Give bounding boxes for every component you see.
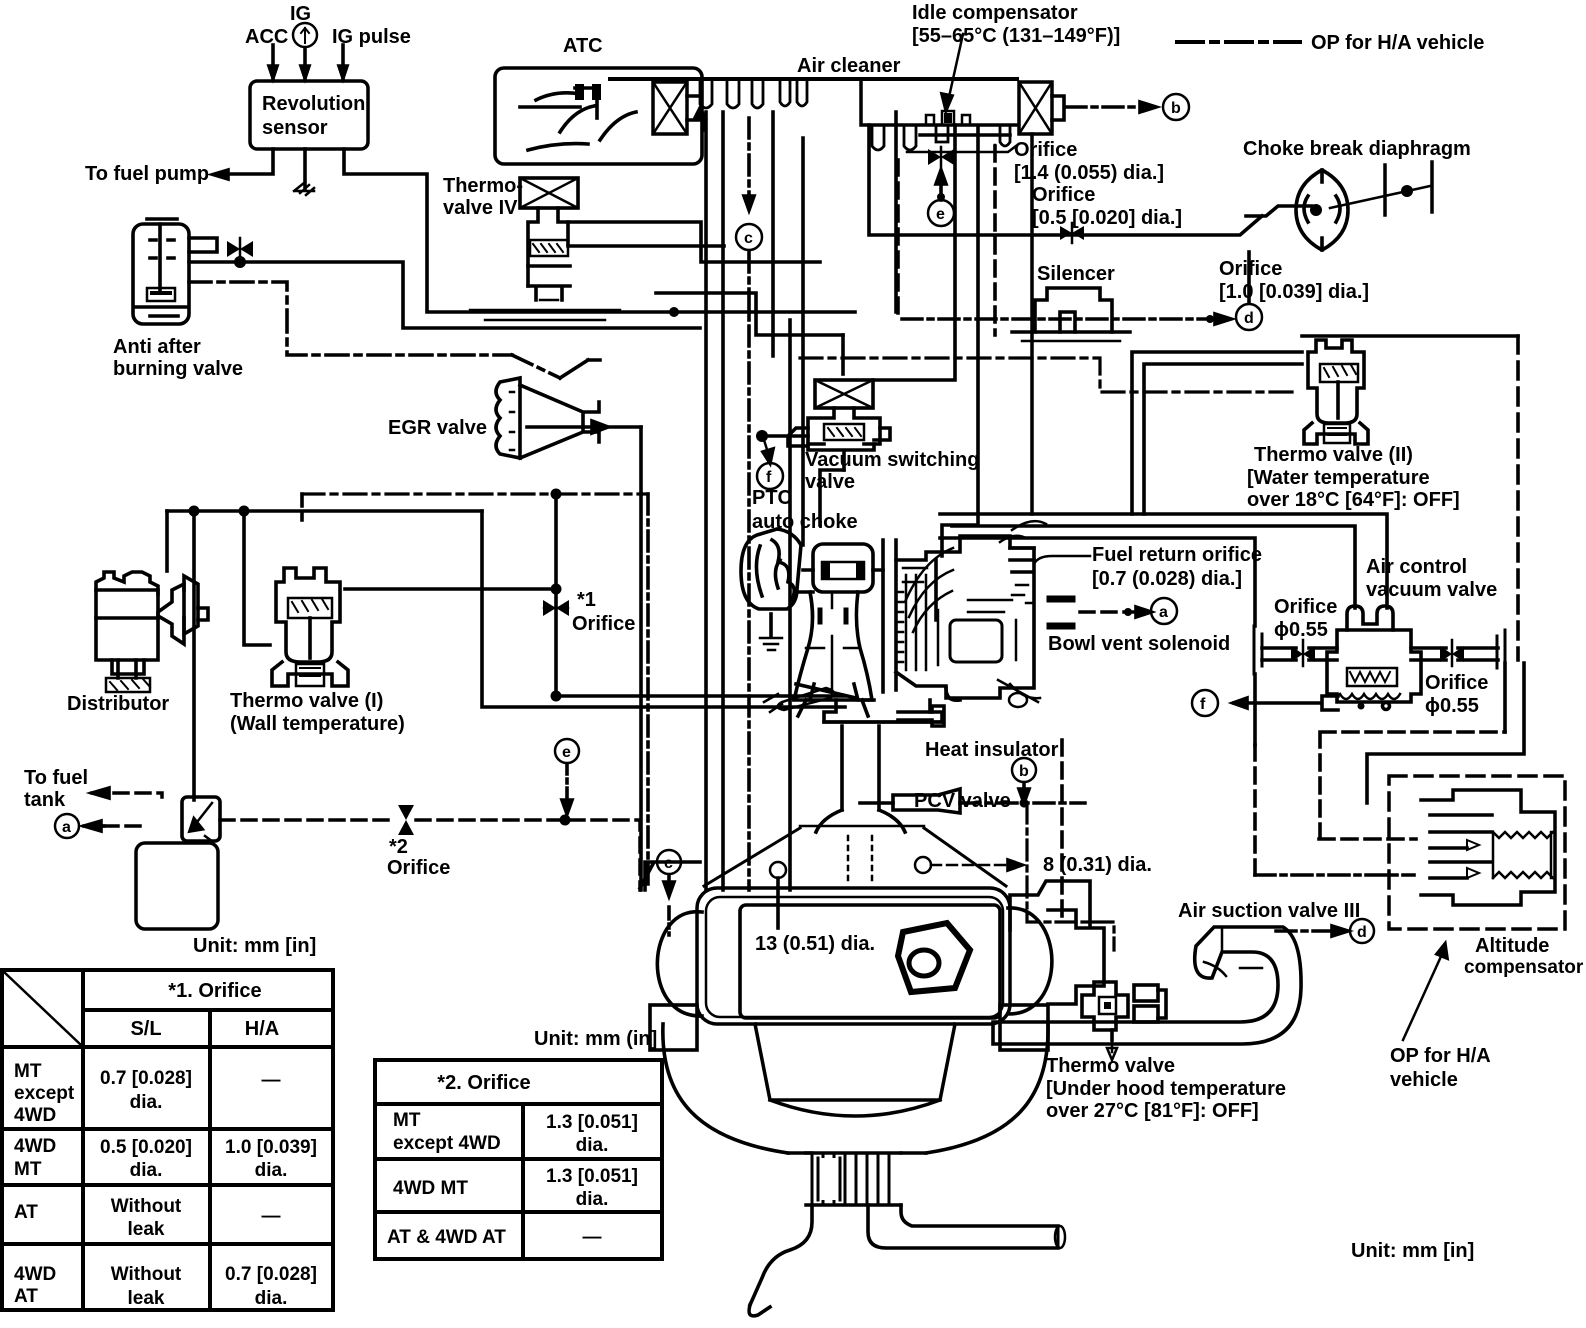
bundle vertical wire x723 bbox=[721, 112, 725, 890]
node a (bottom left) with arrow bbox=[55, 814, 148, 838]
wire x955 down to switching valve bbox=[873, 125, 955, 380]
svg-text:Thermo valve: Thermo valve bbox=[1046, 1055, 1175, 1077]
engine lower block bbox=[663, 1024, 1048, 1153]
table 2 orifice bbox=[375, 1060, 662, 1259]
wire solid mid-left bus y511 bbox=[167, 506, 482, 517]
svg-text:Orifice: Orifice bbox=[1014, 139, 1077, 161]
svg-text:d: d bbox=[1244, 310, 1254, 327]
node e (bottom) with arrow down bbox=[555, 739, 579, 814]
svg-text:compensator: compensator bbox=[1464, 957, 1584, 978]
valve orifice 0.55 right (bowtie) bbox=[1411, 630, 1505, 674]
carburetor venturi body bbox=[794, 540, 896, 716]
svg-text:Orifice: Orifice bbox=[572, 613, 635, 635]
wire vertical x843 from mid bus bbox=[841, 335, 845, 374]
svg-text:[0.5 [0.020] dia.]: [0.5 [0.020] dia.] bbox=[1032, 207, 1182, 229]
wire long horizontal to air control valve left port bbox=[952, 526, 1355, 608]
svg-text:(Wall temperature): (Wall temperature) bbox=[230, 713, 405, 735]
svg-text:leak: leak bbox=[128, 1219, 165, 1240]
wire dash-dot mid-left bus bbox=[302, 489, 648, 521]
svg-text:f: f bbox=[766, 469, 772, 486]
orifice 0.5 line with valve bbox=[869, 125, 1262, 243]
svg-text:d: d bbox=[1357, 924, 1367, 941]
svg-text:Heat insulator: Heat insulator bbox=[925, 739, 1059, 761]
svg-text:*2. Orifice: *2. Orifice bbox=[437, 1072, 530, 1094]
svg-text:[Under hood temperature: [Under hood temperature bbox=[1046, 1078, 1286, 1100]
node b (engine) with arrow bbox=[1012, 758, 1036, 808]
node f (mid) with arrow down bbox=[756, 430, 808, 489]
wire thermo valve IV upper port to bus bbox=[568, 222, 820, 262]
wire dashed to node a (bowl vent) bbox=[1050, 599, 1151, 626]
wire dash-dot to node d (silencer line) bbox=[902, 314, 1231, 324]
svg-text:4WD: 4WD bbox=[14, 1264, 56, 1285]
wire dash-dot from anti-after-burn lower port bbox=[189, 282, 560, 378]
valve *2 orifice bbox=[398, 805, 414, 835]
svg-text:Unit: mm (in]: Unit: mm (in] bbox=[534, 1028, 657, 1050]
svg-text:IG: IG bbox=[290, 3, 311, 25]
wire right corner solids bbox=[1367, 663, 1524, 803]
wire x1026 heavy vertical bbox=[1030, 134, 1034, 514]
svg-text:dia.: dia. bbox=[576, 1135, 609, 1156]
wire thermo valve II left port to junction bbox=[1132, 352, 1302, 514]
svg-text:EGR valve: EGR valve bbox=[388, 417, 487, 439]
svg-text:c: c bbox=[744, 230, 753, 247]
svg-text:f: f bbox=[1200, 696, 1206, 713]
table 1 orifice bbox=[2, 970, 333, 1310]
svg-text:dia.: dia. bbox=[576, 1189, 609, 1210]
wire anti-after-burn valve to right bus bbox=[189, 262, 700, 328]
bundle vertical wire x790 bbox=[788, 320, 792, 890]
svg-text:Anti after: Anti after bbox=[113, 336, 201, 358]
throttle shaft detail bbox=[764, 688, 834, 712]
orifice 1.4 line with valve bbox=[928, 147, 954, 167]
svg-text:Thermo-: Thermo- bbox=[443, 175, 523, 197]
svg-text:e: e bbox=[562, 744, 571, 761]
wire long horizontal to air control valve right port bbox=[940, 514, 1387, 608]
wire solenoid enclosure to air control valve bbox=[940, 538, 1255, 745]
check valve to fuel tank bbox=[182, 797, 220, 842]
wire EGR outlet down the bundle bbox=[639, 427, 643, 890]
svg-text:To fuel pump: To fuel pump bbox=[85, 163, 209, 185]
revolution sensor U1 bbox=[250, 81, 368, 149]
svg-text:Vacuum switching: Vacuum switching bbox=[805, 449, 979, 471]
svg-text:AT & 4WD AT: AT & 4WD AT bbox=[387, 1227, 506, 1248]
air control vacuum valve bbox=[1327, 606, 1421, 710]
node e (top) with arrow up bbox=[928, 170, 954, 226]
wire distributor drop bbox=[165, 511, 169, 571]
svg-text:[1.4 (0.055) dia.]: [1.4 (0.055) dia.] bbox=[1014, 162, 1164, 184]
bundle vertical wire x773 bbox=[771, 112, 775, 356]
svg-text:ATC: ATC bbox=[563, 35, 603, 57]
svg-text:dia.: dia. bbox=[255, 1160, 288, 1181]
node c (top) bbox=[736, 224, 762, 250]
valve (bowtie) on anti-after-burn line bbox=[227, 238, 253, 268]
valve orifice 0.55 left (bowtie) bbox=[1254, 626, 1337, 674]
heat stove crossed box (ATC right) bbox=[653, 82, 705, 134]
wire idle compensator body bbox=[926, 111, 970, 125]
svg-text:valve: valve bbox=[805, 471, 855, 493]
svg-text:4WD: 4WD bbox=[14, 1136, 56, 1157]
svg-text:sensor: sensor bbox=[262, 117, 328, 139]
PCV valve body bbox=[860, 789, 960, 813]
engine rocker cover bbox=[640, 862, 1104, 1050]
choke break diaphragm bbox=[1246, 162, 1432, 250]
altitude compensator dashed box bbox=[1389, 776, 1565, 929]
legend dash-dot sample bbox=[1177, 40, 1300, 44]
altitude compensator body bbox=[1421, 790, 1555, 905]
ground below revolution sensor bbox=[294, 149, 314, 195]
svg-text:Orifice: Orifice bbox=[1032, 184, 1095, 206]
node c (engine) with arrow bbox=[657, 850, 681, 935]
wire IG pulse lead bbox=[339, 45, 347, 78]
svg-text:*2: *2 bbox=[389, 836, 408, 858]
svg-text:b: b bbox=[1171, 100, 1181, 117]
svg-text:1.3 [0.051]: 1.3 [0.051] bbox=[546, 1112, 638, 1133]
ATC housing bbox=[495, 68, 702, 164]
svg-text:Revolution: Revolution bbox=[262, 93, 365, 115]
node IG terminal bbox=[293, 23, 317, 47]
svg-text:Air cleaner: Air cleaner bbox=[797, 55, 901, 77]
svg-text:0.7 [0.028]: 0.7 [0.028] bbox=[100, 1068, 192, 1089]
wire right drop to lower bus bbox=[482, 511, 845, 707]
svg-text:[Water temperature: [Water temperature bbox=[1247, 467, 1430, 489]
svg-text:Orifice: Orifice bbox=[1425, 672, 1488, 694]
svg-text:—: — bbox=[583, 1227, 602, 1248]
wire to fuel pump bbox=[213, 149, 273, 179]
svg-text:1.0 [0.039]: 1.0 [0.039] bbox=[225, 1137, 317, 1158]
fuel return orifice pointer bbox=[1034, 556, 1090, 564]
svg-text:OP for H/A: OP for H/A bbox=[1390, 1045, 1491, 1067]
heat stove crossed box (air cleaner right) bbox=[1019, 82, 1064, 134]
svg-text:tank: tank bbox=[24, 789, 66, 811]
wire dashed main bottom bus bbox=[220, 815, 640, 891]
wire pcv dash-dot to 8dia bus bbox=[1027, 803, 1114, 950]
intake neck from carburetor bbox=[704, 726, 1006, 886]
wire dash-dot to node b (top) bbox=[1066, 102, 1156, 112]
fuel tank bbox=[136, 843, 218, 929]
wire dash-dot into compensator bbox=[1255, 873, 1414, 877]
exhaust elbow pipe bbox=[749, 1205, 1065, 1316]
anti after burning valve bbox=[133, 219, 217, 324]
13 dia pointer bbox=[770, 862, 786, 928]
heat insulator flange bbox=[824, 700, 944, 726]
wire vac switching valve to bus bbox=[820, 470, 844, 525]
svg-text:vehicle: vehicle bbox=[1390, 1069, 1458, 1091]
wire IG lead bbox=[301, 48, 309, 78]
carburetor choke cap bbox=[803, 544, 883, 592]
svg-text:c: c bbox=[664, 855, 673, 872]
wire dashed elbow bbox=[1319, 732, 1505, 839]
svg-text:dia.: dia. bbox=[130, 1160, 163, 1181]
carburetor inlet stubs under air cleaner bbox=[700, 79, 1010, 150]
wire EGR top port bbox=[560, 360, 600, 378]
svg-text:dia.: dia. bbox=[130, 1092, 163, 1113]
svg-text:b: b bbox=[1019, 763, 1029, 780]
svg-text:S/L: S/L bbox=[130, 1018, 161, 1040]
svg-text:AT: AT bbox=[14, 1202, 38, 1223]
wire dashed right vertical bbox=[1516, 336, 1520, 660]
svg-text:8 (0.31) dia.: 8 (0.31) dia. bbox=[1043, 854, 1152, 876]
svg-text:13 (0.51) dia.: 13 (0.51) dia. bbox=[755, 933, 875, 955]
svg-text:Thermo valve (I): Thermo valve (I) bbox=[230, 690, 383, 712]
svg-text:ACC: ACC bbox=[245, 26, 288, 48]
svg-text:except: except bbox=[14, 1083, 75, 1104]
svg-text:OP for H/A vehicle: OP for H/A vehicle bbox=[1311, 32, 1484, 54]
node b (top right) bbox=[1163, 94, 1189, 120]
thermo valve I bbox=[272, 568, 348, 686]
wire choke diaphragm lower to silencer level bbox=[1247, 252, 1251, 302]
wire pcv dash-dot bbox=[960, 801, 1085, 805]
svg-text:ϕ0.55: ϕ0.55 bbox=[1274, 619, 1328, 641]
node d (top) bbox=[1236, 304, 1262, 330]
svg-text:4WD: 4WD bbox=[14, 1105, 56, 1126]
carburetor float bowl / bowl vent solenoid bbox=[896, 521, 1046, 707]
svg-text:H/A: H/A bbox=[245, 1018, 279, 1040]
svg-text:over 27°C [81°F]: OFF]: over 27°C [81°F]: OFF] bbox=[1046, 1100, 1259, 1122]
wire dash-dot bus into thermo valve II bbox=[800, 358, 1296, 392]
air suction valve III bbox=[993, 927, 1301, 1044]
svg-text:[55–65°C (131–149°F)]: [55–65°C (131–149°F)] bbox=[912, 25, 1120, 47]
wire thermo valve IV lower port to bus bbox=[568, 244, 724, 248]
thermo valve IV bbox=[470, 178, 620, 320]
svg-text:4WD MT: 4WD MT bbox=[393, 1178, 468, 1199]
svg-text:*1. Orifice: *1. Orifice bbox=[168, 980, 261, 1002]
wire dashed to fuel tank upper bbox=[92, 788, 162, 798]
wire mid horizontal from EGR/bundle region bbox=[656, 293, 843, 335]
node a (mid right) bbox=[1151, 598, 1177, 624]
wire x994 dashed bbox=[993, 146, 997, 335]
air cleaner top line bbox=[610, 77, 1017, 81]
svg-text:Air suction valve III: Air suction valve III bbox=[1178, 900, 1360, 922]
wire from ATC stove down bbox=[801, 138, 805, 545]
thermo valve under hood bbox=[1082, 982, 1166, 1060]
svg-text:Thermo valve (II): Thermo valve (II) bbox=[1254, 444, 1413, 466]
svg-text:[1.0 [0.039] dia.]: [1.0 [0.039] dia.] bbox=[1219, 281, 1369, 303]
wire dash-dot below node c bbox=[747, 252, 751, 890]
svg-text:burning valve: burning valve bbox=[113, 358, 243, 380]
idle compensator bbox=[920, 34, 1010, 135]
wire x975 air cleaner to bowl bbox=[942, 126, 978, 556]
wire thermo valve I right port bbox=[345, 584, 562, 595]
svg-text:[0.7 (0.028) dia.]: [0.7 (0.028) dia.] bbox=[1092, 568, 1242, 590]
svg-text:To fuel: To fuel bbox=[24, 767, 88, 789]
svg-text:Idle compensator: Idle compensator bbox=[912, 2, 1078, 24]
svg-text:Unit: mm [in]: Unit: mm [in] bbox=[193, 935, 316, 957]
svg-text:—: — bbox=[262, 1206, 281, 1227]
wire *1 orifice vertical bbox=[551, 494, 846, 702]
svg-text:Orifice: Orifice bbox=[387, 857, 450, 879]
wire thermo valve I left port bbox=[244, 511, 270, 645]
svg-text:PTC: PTC bbox=[752, 487, 792, 509]
vacuum switching valve bbox=[788, 380, 890, 470]
wire revolution sensor to carburetor bus bbox=[344, 149, 855, 317]
svg-text:PCV valve: PCV valve bbox=[914, 790, 1011, 812]
wire x896 stub down bbox=[894, 112, 898, 312]
svg-text:Bowl vent solenoid: Bowl vent solenoid bbox=[1048, 633, 1230, 655]
svg-text:a: a bbox=[1159, 604, 1168, 621]
svg-text:Without: Without bbox=[111, 1196, 182, 1217]
flex coupling ribbed bbox=[806, 1153, 901, 1205]
wire dash-dot to node d (bottom) bbox=[1276, 919, 1374, 943]
svg-text:Air control: Air control bbox=[1366, 556, 1467, 578]
svg-text:Orifice: Orifice bbox=[1219, 258, 1282, 280]
distributor bbox=[96, 572, 208, 692]
svg-text:0.7 [0.028]: 0.7 [0.028] bbox=[225, 1264, 317, 1285]
8 dia pointer bbox=[915, 857, 1022, 873]
svg-text:AT: AT bbox=[14, 1286, 38, 1307]
svg-text:Without: Without bbox=[111, 1264, 182, 1285]
wire dashed bowl drain bbox=[1060, 740, 1064, 920]
svg-text:leak: leak bbox=[128, 1288, 165, 1309]
silencer bbox=[1012, 288, 1130, 341]
svg-text:vacuum valve: vacuum valve bbox=[1366, 579, 1497, 601]
svg-text:Orifice: Orifice bbox=[1274, 596, 1337, 618]
bundle vertical wire x706 bbox=[704, 112, 708, 890]
wire fuel-tank-valve drop bbox=[192, 511, 196, 800]
svg-text:over 18°C [64°F]: OFF]: over 18°C [64°F]: OFF] bbox=[1247, 489, 1460, 511]
svg-text:Choke break diaphragm: Choke break diaphragm bbox=[1243, 138, 1471, 160]
arrow OP for H/A vehicle bbox=[1403, 944, 1447, 1040]
svg-text:1.3 [0.051]: 1.3 [0.051] bbox=[546, 1166, 638, 1187]
svg-text:valve IV: valve IV bbox=[443, 197, 518, 219]
wire ACC lead bbox=[269, 45, 277, 78]
svg-text:a: a bbox=[62, 819, 71, 836]
svg-text:Silencer: Silencer bbox=[1037, 263, 1115, 285]
thermo valve II bbox=[1304, 340, 1368, 444]
orifice 1.4 line bbox=[907, 146, 1016, 152]
svg-text:ϕ0.55: ϕ0.55 bbox=[1425, 695, 1479, 717]
valve *1 orifice (bowtie) bbox=[543, 600, 569, 616]
svg-text:Fuel return orifice: Fuel return orifice bbox=[1092, 544, 1262, 566]
wire dashed vertical x906 bbox=[896, 160, 900, 320]
svg-text:Unit: mm [in]: Unit: mm [in] bbox=[1351, 1240, 1474, 1262]
wire thermo valve II top to right dashed drop bbox=[1302, 334, 1518, 338]
svg-text:MT: MT bbox=[14, 1061, 42, 1082]
wire dash-dot to node c bbox=[744, 118, 754, 210]
svg-text:MT: MT bbox=[393, 1110, 421, 1131]
svg-text:Altitude: Altitude bbox=[1475, 935, 1549, 957]
svg-text:auto choke: auto choke bbox=[752, 511, 858, 533]
wire to node f bbox=[1192, 690, 1338, 716]
svg-text:MT: MT bbox=[14, 1159, 42, 1180]
svg-text:0.5 [0.020]: 0.5 [0.020] bbox=[100, 1137, 192, 1158]
svg-text:—: — bbox=[262, 1070, 281, 1091]
wire dash-dot x645 down bbox=[646, 494, 650, 890]
svg-text:IG pulse: IG pulse bbox=[332, 26, 411, 48]
PTC auto choke bbox=[741, 529, 813, 650]
EGR valve bbox=[496, 378, 641, 458]
svg-text:except 4WD: except 4WD bbox=[393, 1133, 501, 1154]
svg-text:e: e bbox=[936, 206, 945, 223]
svg-text:dia.: dia. bbox=[255, 1288, 288, 1309]
svg-text:Distributor: Distributor bbox=[67, 693, 169, 715]
oil filler nut bbox=[898, 923, 970, 992]
svg-text:*1: *1 bbox=[577, 589, 596, 611]
